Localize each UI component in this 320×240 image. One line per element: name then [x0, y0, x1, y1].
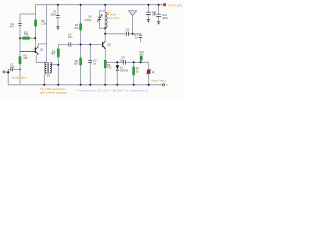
wire R2 row — [20, 37, 35, 39]
background — [0, 0, 184, 100]
svg-text:Audio Input: Audio Input — [12, 76, 27, 80]
capacitor C4 — [69, 42, 71, 47]
svg-text:C8: C8 — [126, 27, 130, 31]
wire R7 drop — [133, 62, 135, 85]
wire audio input riser — [8, 69, 20, 72]
wire Q2 emitter row — [104, 49, 106, 60]
video input terminal — [163, 84, 165, 86]
ground symbol (C8 branch) — [147, 20, 150, 23]
ground symbol (C3 branch) — [56, 27, 59, 30]
svg-text:1n: 1n — [93, 62, 96, 66]
wire T1 bottom to bus — [44, 73, 50, 85]
+12V terminal — [163, 3, 166, 6]
junction dots — [7, 4, 160, 86]
svg-text:10n: 10n — [68, 35, 73, 39]
capacitor C7 — [139, 35, 143, 37]
inductor L1 — [105, 12, 107, 28]
wire Q1 base from R1 node — [20, 51, 35, 53]
svg-text:T1: T1 — [47, 74, 51, 78]
wire C3 branch — [57, 5, 59, 27]
wire Q1 collector to rail line — [38, 44, 46, 46]
svg-text:10u: 10u — [152, 13, 157, 17]
capacitor C9 (series in emitter row) — [124, 60, 126, 65]
wire +12V rail — [36, 4, 164, 6]
resistor R4b bottom (bias lower) — [80, 58, 82, 66]
resistor R6 — [35, 20, 37, 27]
wire collector Q2 — [104, 12, 106, 41]
svg-text:47k: 47k — [74, 26, 79, 30]
resistor R4 top (bias upper) — [80, 24, 82, 31]
preset VR1 (red) — [147, 69, 151, 74]
transistor Q1 — [35, 46, 38, 54]
svg-text:47n: 47n — [139, 54, 144, 57]
wire bias divider line — [80, 5, 82, 85]
wire antenna feed — [105, 33, 140, 35]
trimmer capacitor CT — [97, 15, 102, 23]
resistor R7 — [133, 67, 135, 75]
wire right decoupling branches — [147, 5, 149, 20]
capacitor C3 — [56, 16, 60, 18]
ground symbol (C11 branch) — [157, 22, 160, 25]
svg-text:Q2: Q2 — [107, 42, 111, 46]
wire tank top — [99, 5, 105, 23]
svg-text:4k7: 4k7 — [51, 52, 56, 56]
svg-text:1N4148: 1N4148 — [120, 71, 129, 73]
svg-text:10u: 10u — [10, 65, 15, 69]
svg-text:1mm wire: 1mm wire — [108, 16, 120, 20]
svg-text:100n: 100n — [162, 16, 168, 20]
wire audio ground drop — [8, 72, 162, 85]
wire T1 right top to R3 — [51, 58, 58, 65]
capacitor C10 (green, feedback branch) — [140, 56, 142, 61]
wire Q1 emitter to T1 — [36, 55, 46, 63]
wire R3 top to C4 row — [58, 45, 102, 49]
capacitor C8 (rail decoupling left) — [146, 12, 151, 14]
svg-text:5-65p: 5-65p — [85, 18, 92, 22]
svg-text:47k: 47k — [24, 33, 29, 37]
svg-text:10k: 10k — [23, 56, 28, 60]
svg-text:with internal capacitor: with internal capacitor — [40, 90, 67, 94]
wire tank bottom rejoin — [99, 22, 105, 28]
antenna — [129, 11, 137, 16]
svg-text:1.5k: 1.5k — [41, 22, 47, 26]
audio input terminal — [3, 71, 5, 73]
svg-text:+12V (A): +12V (A) — [168, 3, 182, 7]
wire left block verticals — [35, 5, 37, 48]
svg-text:Video Input: Video Input — [151, 78, 166, 82]
svg-text:Transistors Q1,Q2 = BC547 or e: Transistors Q1,Q2 = BC547 or equivalent — [77, 88, 148, 92]
resistor R2 — [22, 37, 29, 40]
wire C7/C10 branch — [140, 34, 142, 63]
diode D1 — [116, 65, 119, 70]
transistor Q2 — [103, 41, 106, 49]
transformer T1 — [45, 62, 52, 73]
capacitor C1 — [11, 68, 13, 72]
resistor R1 — [19, 57, 21, 65]
wire preset to video line — [148, 74, 150, 85]
wire D1 drop — [116, 62, 118, 85]
svg-text:Q1: Q1 — [40, 48, 44, 52]
resistor R3 (audio coupling) — [57, 49, 59, 58]
svg-text:100n: 100n — [50, 13, 56, 17]
capacitor C11 (rail decoupling right, electrolytic) — [154, 13, 162, 17]
wire C5 branch — [89, 45, 91, 85]
svg-text:470: 470 — [107, 66, 112, 70]
resistor R5 (Q2 emitter) — [104, 60, 106, 68]
capacitor C2 — [18, 23, 22, 25]
capacitor C6 — [127, 32, 129, 36]
svg-text:4n7: 4n7 — [10, 25, 15, 29]
svg-text:10n: 10n — [120, 58, 125, 62]
capacitor C5 — [88, 60, 92, 62]
